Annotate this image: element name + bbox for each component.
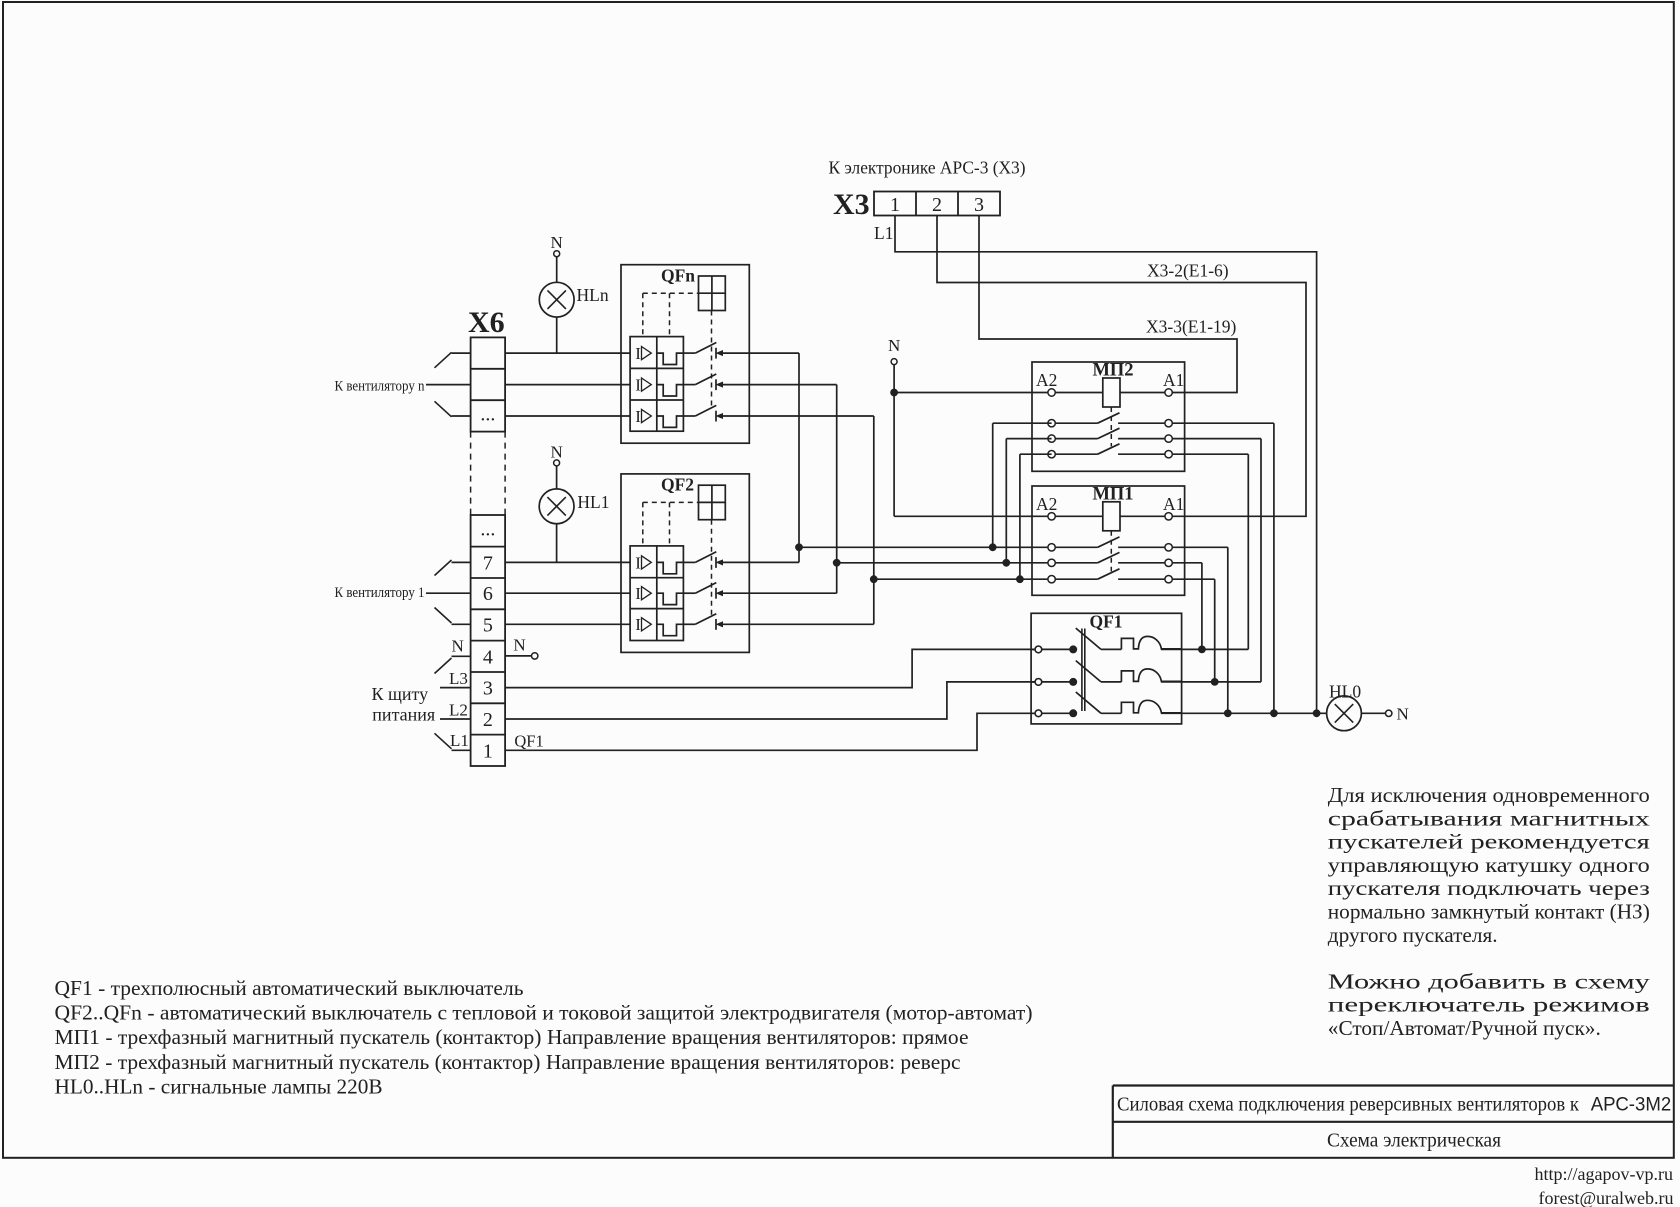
svg-text:6: 6 <box>483 583 493 605</box>
svg-text:3: 3 <box>974 194 984 216</box>
svg-text:HLn: HLn <box>577 285 609 305</box>
svg-text:L1: L1 <box>874 223 893 243</box>
svg-text:1: 1 <box>890 194 900 216</box>
svg-text:...: ... <box>480 404 495 426</box>
svg-text:N: N <box>1397 704 1409 723</box>
svg-text:«Стоп/Автомат/Ручной пуск».: «Стоп/Автомат/Ручной пуск». <box>1328 1016 1601 1040</box>
svg-text:QF1 - трехполюсный автоматичес: QF1 - трехполюсный автоматический выключ… <box>55 976 524 1000</box>
svg-text:Х3-2(Е1-6): Х3-2(Е1-6) <box>1147 261 1229 281</box>
svg-text:N: N <box>452 637 464 656</box>
svg-text:N: N <box>513 636 525 655</box>
svg-text:другого пускателя.: другого пускателя. <box>1328 923 1498 947</box>
svg-text:питания: питания <box>372 705 435 725</box>
svg-text:нормально замкнутый контакт (Н: нормально замкнутый контакт (НЗ) <box>1328 900 1650 924</box>
svg-text:А2: А2 <box>1036 494 1057 514</box>
svg-text:пускателей рекомендуется: пускателей рекомендуется <box>1328 830 1650 854</box>
svg-text:4: 4 <box>483 646 493 668</box>
svg-text:2: 2 <box>932 194 942 216</box>
svg-text:QF2..QFn - автоматический выкл: QF2..QFn - автоматический выключатель с … <box>55 1001 1033 1025</box>
svg-text:2: 2 <box>483 709 493 731</box>
svg-text:L2: L2 <box>449 700 468 719</box>
svg-text:Х3: Х3 <box>833 188 870 221</box>
svg-text:QF1: QF1 <box>514 731 543 750</box>
svg-text:N: N <box>550 442 562 461</box>
svg-text:К вентилятору n: К вентилятору n <box>335 379 426 395</box>
svg-text:N: N <box>888 336 900 355</box>
svg-text:HL1: HL1 <box>577 492 609 512</box>
svg-text:forest@uralweb.ru: forest@uralweb.ru <box>1538 1188 1673 1207</box>
svg-text:I: I <box>635 376 641 395</box>
svg-text:А1: А1 <box>1163 370 1184 390</box>
svg-text:...: ... <box>480 518 495 540</box>
svg-text:N: N <box>551 233 563 252</box>
svg-text:http://agapov-vp.ru: http://agapov-vp.ru <box>1535 1164 1673 1184</box>
svg-text:I: I <box>635 407 641 426</box>
svg-text:А1: А1 <box>1163 494 1184 514</box>
svg-text:переключатель режимов: переключатель режимов <box>1328 993 1650 1017</box>
svg-text:Схема электрическая: Схема электрическая <box>1327 1130 1502 1152</box>
svg-text:Можно добавить в схему: Можно добавить в схему <box>1328 969 1650 993</box>
svg-text:I: I <box>635 584 641 603</box>
svg-text:МП2 - трехфазный магнитный пус: МП2 - трехфазный магнитный пускатель (ко… <box>55 1050 961 1074</box>
svg-text:АРС-3М2: АРС-3М2 <box>1591 1094 1672 1116</box>
svg-text:срабатывания магнитных: срабатывания магнитных <box>1328 806 1650 830</box>
svg-text:L1: L1 <box>450 731 469 750</box>
svg-text:QF2: QF2 <box>661 475 694 495</box>
svg-text:Х3-3(Е1-19): Х3-3(Е1-19) <box>1146 317 1237 337</box>
svg-text:HL0..HLn - сигнальные лампы 22: HL0..HLn - сигнальные лампы 220В <box>55 1074 383 1098</box>
svg-text:L3: L3 <box>449 669 468 688</box>
svg-text:управляющую катушку одного: управляющую катушку одного <box>1328 853 1650 877</box>
svg-text:I: I <box>635 553 641 572</box>
svg-text:МП1 - трехфазный магнитный пус: МП1 - трехфазный магнитный пускатель (ко… <box>55 1025 969 1049</box>
svg-text:QF1: QF1 <box>1089 612 1122 632</box>
svg-text:пускателя подключать через: пускателя подключать через <box>1328 876 1650 900</box>
svg-text:I: I <box>635 615 641 634</box>
svg-text:К щиту: К щиту <box>372 684 429 704</box>
svg-text:5: 5 <box>483 614 493 636</box>
svg-text:I: I <box>635 344 641 363</box>
svg-text:3: 3 <box>483 678 493 700</box>
svg-text:Х6: Х6 <box>468 306 505 339</box>
svg-text:Для исключения одновременного: Для исключения одновременного <box>1328 783 1650 807</box>
svg-text:QFn: QFn <box>661 266 695 286</box>
svg-text:7: 7 <box>483 552 493 574</box>
svg-text:К вентилятору 1: К вентилятору 1 <box>335 585 425 601</box>
svg-text:К электронике АРС-3 (Х3): К электронике АРС-3 (Х3) <box>829 158 1026 179</box>
svg-text:А2: А2 <box>1036 370 1057 390</box>
svg-text:1: 1 <box>483 740 493 762</box>
svg-text:Силовая схема подключения реве: Силовая схема подключения реверсивных ве… <box>1117 1094 1579 1116</box>
